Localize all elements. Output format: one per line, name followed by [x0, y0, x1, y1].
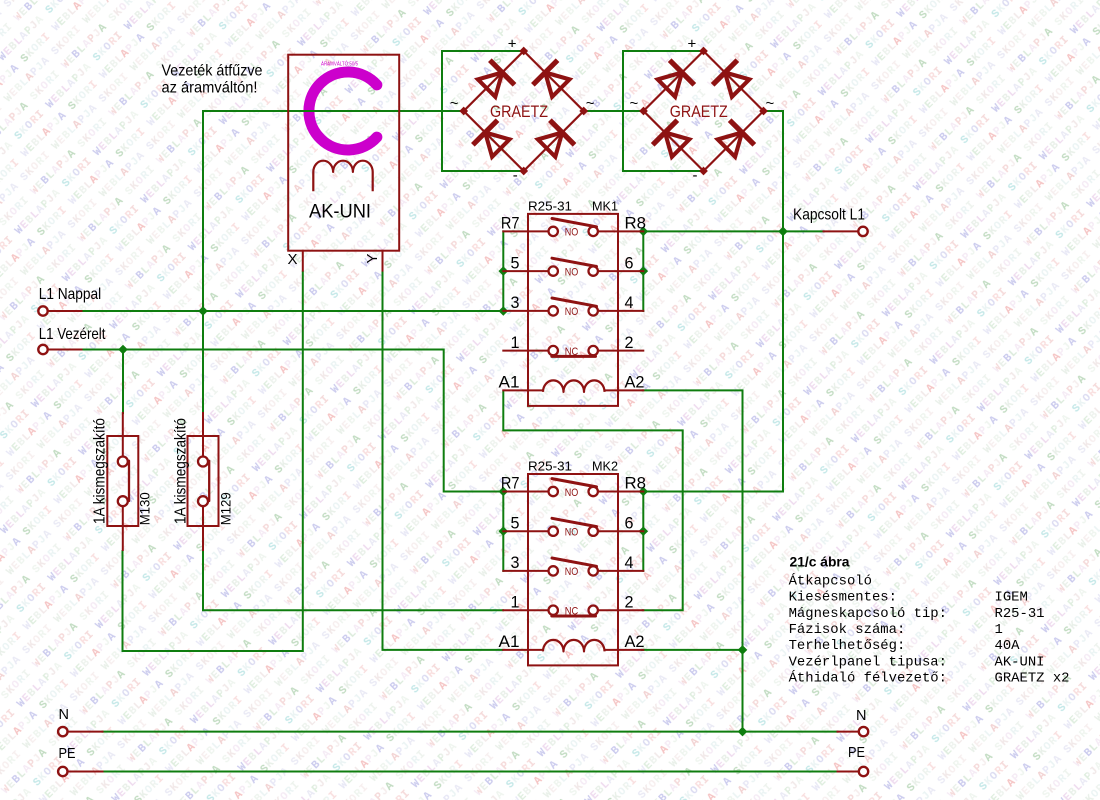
svg-text:AK-UNI: AK-UNI	[309, 202, 371, 223]
contact NO row 1 of MK2	[503, 491, 548, 493]
svg-text:R25-31: R25-31	[995, 606, 1045, 622]
svg-text:~: ~	[450, 95, 459, 112]
svg-text:az áramváltón!: az áramváltón!	[162, 79, 258, 96]
control panel AK-UNI box	[288, 55, 399, 251]
svg-text:M129: M129	[217, 492, 233, 525]
contact NO row 3 of MK2	[503, 570, 548, 572]
junction MK2 A2	[738, 645, 748, 655]
svg-text:1: 1	[511, 333, 520, 352]
diode D lower-left of bridge at x=523.7	[485, 133, 509, 157]
svg-text:6: 6	[625, 253, 634, 272]
svg-text:4: 4	[625, 553, 634, 572]
svg-text:-: -	[513, 167, 518, 184]
terminal Kapcsolt L1	[858, 227, 867, 236]
wire: M129 top from L1 Nappal (vertical x=203 continues as red stub)	[202, 311, 204, 413]
wire: MK1 A1 down right down to MK2 pin 2	[503, 390, 682, 610]
terminal PE right	[859, 767, 868, 776]
junction MK1 pin6	[638, 266, 648, 276]
wire: bridge1 right to bridge2 left	[584, 110, 644, 112]
svg-text:Terhelhetőség:: Terhelhetőség:	[789, 638, 906, 654]
wire: MK1 A2 right to x=742.5 down to N rail	[642, 390, 743, 731]
svg-text:2: 2	[625, 333, 634, 352]
svg-text:Vezérlpanel tipusa:: Vezérlpanel tipusa:	[789, 654, 947, 670]
svg-text:L1 Nappal: L1 Nappal	[39, 286, 101, 303]
junction MK2 R7	[498, 487, 508, 497]
svg-text:40A: 40A	[995, 638, 1021, 654]
node right of bridge at x=703.5	[759, 107, 768, 116]
svg-text:5: 5	[511, 513, 520, 532]
node bottom of bridge at x=703.5	[699, 167, 708, 176]
junction N rail	[738, 727, 748, 737]
svg-text:NO: NO	[565, 266, 579, 278]
svg-text:21/c ábra: 21/c ábra	[790, 553, 850, 569]
current transformer ring (magenta C)	[309, 72, 377, 150]
svg-text:A2: A2	[625, 373, 645, 392]
svg-text:4: 4	[625, 293, 634, 312]
contact NC row 4 of MK1	[503, 350, 548, 352]
svg-text:PE: PE	[848, 745, 865, 761]
svg-text:NO: NO	[565, 527, 579, 539]
svg-text:6: 6	[625, 513, 634, 532]
contact NO row 2 of MK1	[503, 270, 548, 272]
wire: bridge2 bypass + to -	[623, 51, 704, 171]
svg-text:Kiesésmentes:: Kiesésmentes:	[789, 590, 897, 606]
junction MK2 pin6	[638, 526, 648, 536]
diode D lower-right of bridge at x=523.7	[538, 133, 562, 157]
wire stub N right	[838, 731, 860, 733]
svg-text:Áthidaló félvezető:: Áthidaló félvezető:	[789, 669, 947, 687]
circuit breaker M129 box	[188, 436, 219, 526]
breaker M130 pins and contacts	[122, 413, 124, 457]
svg-text:~: ~	[630, 95, 639, 112]
svg-text:1A kismegszakító: 1A kismegszakító	[172, 418, 189, 524]
svg-text:N: N	[59, 707, 69, 723]
wire: L1 Vezerelt horizontal, corner down to MK2 R7	[82, 350, 504, 492]
svg-text:NO: NO	[565, 306, 579, 318]
svg-text:R7: R7	[501, 474, 520, 493]
svg-text:~: ~	[766, 95, 775, 112]
diode D upper-left of bridge at x=703.5	[658, 73, 682, 97]
wire: bridge2 right down to MK2 R8	[643, 111, 783, 492]
wire stub N left	[68, 731, 103, 733]
wire: MK2 left vertical R7-5-3	[502, 492, 504, 571]
junction MK1 pin3	[498, 306, 508, 316]
contact NO row 1 of MK1	[503, 230, 548, 232]
svg-text:NO: NO	[565, 487, 579, 499]
svg-text:-: -	[693, 167, 698, 184]
svg-text:N: N	[856, 708, 866, 724]
svg-text:AK-UNI: AK-UNI	[995, 654, 1045, 670]
wire: MK2 right vertical R8-6-4	[642, 492, 644, 571]
inductor inside AK-UNI	[313, 161, 372, 192]
svg-text:NC: NC	[565, 606, 579, 618]
wire: M130 bottom to AK-UNI pin X	[123, 271, 303, 651]
terminal L1 Nappal	[38, 306, 47, 315]
svg-text:GRAETZ: GRAETZ	[670, 103, 728, 121]
junction MK2 R8	[638, 487, 648, 497]
junction MK1 pin5	[498, 266, 508, 276]
svg-text:1: 1	[511, 592, 520, 611]
svg-text:ÁRAMVÁLTÓ:50/5: ÁRAMVÁLTÓ:50/5	[321, 61, 358, 68]
wire: MK1 R8 row to Kapcsolt L1 terminal	[643, 230, 823, 232]
terminal N right	[859, 727, 868, 736]
wire: MK1 right vertical R8-6-4	[642, 231, 644, 311]
pin X stub	[302, 251, 304, 271]
node top of bridge at x=523.7	[519, 47, 528, 56]
svg-text:A2: A2	[625, 632, 645, 651]
svg-text:R8: R8	[625, 474, 647, 493]
contact NO row 3 of MK1	[503, 310, 548, 312]
svg-text:M130: M130	[137, 492, 153, 525]
diode D upper-right of bridge at x=523.7	[545, 73, 569, 97]
svg-text:~: ~	[586, 95, 595, 112]
wire: AK-UNI pin Y down to MK2 A1	[383, 271, 504, 650]
svg-text:Y: Y	[364, 253, 381, 263]
svg-text:3: 3	[511, 293, 520, 312]
contactor MK2 box	[528, 474, 618, 665]
svg-text:+: +	[688, 36, 697, 53]
svg-text:Kapcsolt L1: Kapcsolt L1	[793, 206, 865, 223]
svg-text:A1: A1	[499, 373, 520, 392]
node right of bridge at x=523.7	[579, 107, 588, 116]
svg-text:NO: NO	[565, 227, 579, 239]
coil A1-A2 of MK2	[503, 649, 543, 651]
contactor MK1 box	[528, 214, 618, 406]
wire: N rail	[103, 731, 838, 733]
node left of bridge at x=523.7	[459, 107, 468, 116]
junction MK1 R8	[638, 227, 648, 237]
node top of bridge at x=703.5	[699, 47, 708, 56]
junction Kapcsolt L1	[778, 227, 788, 237]
svg-text:R7: R7	[501, 214, 520, 233]
contact NO row 2 of MK2	[503, 530, 548, 532]
svg-text:X: X	[287, 251, 297, 268]
svg-text:R25-31: R25-31	[528, 460, 572, 474]
wire: MK2 A2 right to junction	[642, 649, 743, 651]
wire: diamond edges of bridge at x=523.7	[464, 51, 584, 171]
svg-text:R25-31: R25-31	[528, 200, 572, 214]
svg-text:MK1: MK1	[592, 200, 618, 214]
wire: M129 bottom to MK2 pin 1	[203, 550, 504, 610]
svg-text:5: 5	[511, 253, 520, 272]
terminal N left	[58, 727, 67, 736]
terminal L1 Vezerelt	[38, 345, 47, 354]
svg-text:GRAETZ x2: GRAETZ x2	[995, 671, 1070, 687]
wire: PE rail	[103, 771, 838, 773]
wire stub PE left	[68, 771, 103, 773]
svg-text:Fázisok száma:: Fázisok száma:	[789, 622, 906, 638]
svg-text:L1 Vezérelt: L1 Vezérelt	[39, 326, 106, 343]
wire stub Kapcsolt L1	[824, 230, 858, 232]
svg-text:1A kismegszakító: 1A kismegszakító	[92, 418, 109, 524]
svg-text:1: 1	[995, 622, 1003, 638]
svg-text:IGEM: IGEM	[995, 590, 1028, 606]
svg-text:A1: A1	[499, 632, 520, 651]
wire stub L1 Nappal	[48, 310, 82, 312]
svg-text:NC: NC	[565, 346, 579, 358]
junction MK2 pin5	[498, 526, 508, 536]
circuit breaker M130 box	[107, 436, 138, 526]
coil A1-A2 of MK1	[503, 389, 543, 391]
breaker M129 pins and contacts	[202, 413, 204, 457]
diode D lower-right of bridge at x=703.5	[718, 133, 742, 157]
diode D lower-left of bridge at x=703.5	[665, 133, 689, 157]
node bottom of bridge at x=523.7	[519, 167, 528, 176]
svg-text:NO: NO	[565, 566, 579, 578]
wire: diamond edges of bridge at x=703.5	[644, 51, 764, 171]
pin Y stub	[382, 251, 384, 271]
svg-text:GRAETZ: GRAETZ	[490, 103, 548, 121]
diode D upper-left of bridge at x=523.7	[478, 73, 502, 97]
wire: L1 Vezerelt branch down to M130	[122, 350, 124, 414]
wire: MK1 left vertical R7-5-3	[502, 231, 504, 311]
svg-text:3: 3	[511, 553, 520, 572]
svg-text:+: +	[508, 36, 517, 53]
svg-text:2: 2	[625, 592, 634, 611]
node left of bridge at x=703.5	[639, 107, 648, 116]
svg-text:Mágneskapcsoló tip:: Mágneskapcsoló tip:	[789, 606, 947, 622]
contact NC row 4 of MK2	[503, 609, 548, 611]
diode D upper-right of bridge at x=703.5	[725, 73, 749, 97]
svg-text:PE: PE	[59, 746, 76, 762]
wire stub L1 Vezerelt	[48, 349, 82, 351]
junction L1 Vezerelt / M130	[118, 345, 128, 355]
svg-text:R8: R8	[625, 214, 647, 233]
wire: L1 Nappal horizontal to MK1 pin 3	[82, 310, 504, 312]
wire stub PE right	[838, 771, 860, 773]
svg-text:Átkapcsoló: Átkapcsoló	[789, 571, 872, 589]
wire: vertical x=203 through AK-UNI up, main AC line y=111	[203, 111, 464, 413]
svg-text:MK2: MK2	[592, 460, 618, 474]
wire: bridge1 bypass + to -	[442, 51, 524, 171]
terminal PE left	[58, 767, 67, 776]
junction L1 Nappal / transformer wire	[198, 306, 208, 316]
svg-text:Vezeték átfűzve: Vezeték átfűzve	[162, 62, 263, 79]
